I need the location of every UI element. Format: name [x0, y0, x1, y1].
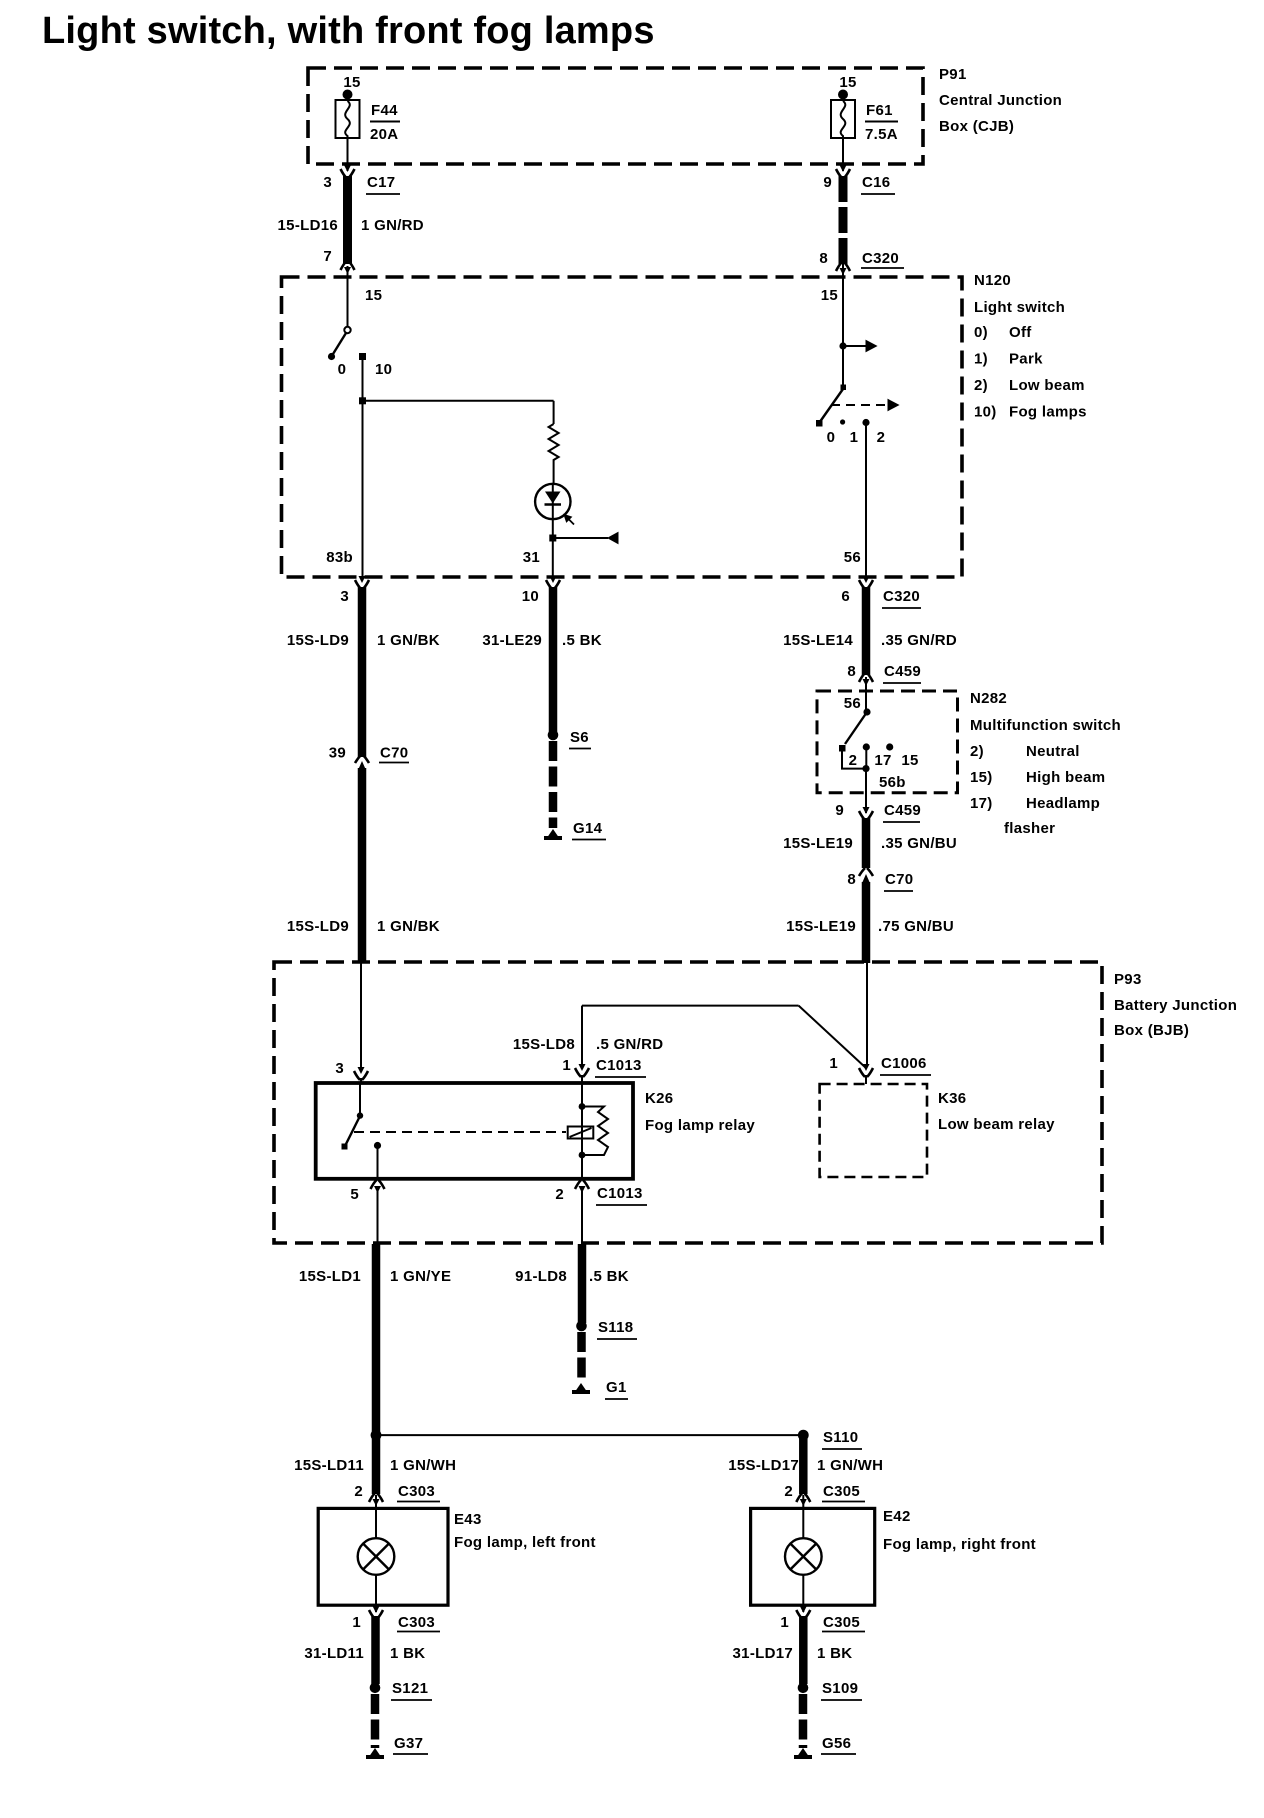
connector C1013 pin 2 below K26 [555, 1180, 647, 1205]
svg-text:15: 15 [901, 752, 918, 769]
svg-text:Battery Junction: Battery Junction [1114, 997, 1237, 1014]
N120 label block [974, 272, 1087, 421]
wire 31-LE29 .5 BK [482, 587, 601, 732]
splice S110 [798, 1429, 862, 1449]
LED wire through [552, 484, 554, 519]
stub into K26 pin 3 [360, 1078, 362, 1084]
svg-text:E42: E42 [883, 1508, 911, 1525]
svg-text:10): 10) [974, 404, 997, 421]
connector pin 10 below N120 [522, 576, 560, 605]
E42 internal wire top [802, 1495, 804, 1538]
wire contact 17 to junction [865, 747, 867, 769]
K26 Fog lamp relay box [316, 1083, 633, 1179]
svg-text:17: 17 [874, 752, 891, 769]
LED indicator lamp circle [535, 484, 570, 519]
svg-text:S6: S6 [570, 729, 589, 746]
svg-text:3: 3 [323, 174, 332, 191]
wire 15S-LE19 .35 GN/BU [783, 818, 957, 868]
contact 2 dot [862, 419, 869, 426]
svg-text:C459: C459 [884, 802, 921, 819]
svg-text:0: 0 [827, 429, 836, 446]
wire 15S-LE14 .35 GN/RD [783, 587, 957, 675]
svg-text:15S-LD1: 15S-LD1 [299, 1268, 361, 1285]
wire 15S-LD11 1 GN/WH [294, 1435, 456, 1494]
svg-text:G37: G37 [394, 1735, 423, 1752]
svg-text:P93: P93 [1114, 971, 1142, 988]
wire 15S-LD8 diagonal [799, 1006, 866, 1068]
svg-text:2: 2 [555, 1186, 564, 1203]
svg-text:9: 9 [823, 174, 832, 191]
ground G37 [366, 1735, 428, 1759]
svg-text:1 GN/BK: 1 GN/BK [377, 918, 440, 935]
connector C459 pin 9 [835, 802, 921, 822]
dashed ground wire to G14 [549, 741, 558, 828]
svg-text:7: 7 [323, 248, 332, 265]
splice S109 [798, 1680, 862, 1700]
svg-text:P91: P91 [939, 66, 967, 83]
svg-text:Fog lamp, right front: Fog lamp, right front [883, 1536, 1036, 1553]
wire 15S-LD1 1 GN/YE [299, 1244, 451, 1432]
svg-text:Neutral: Neutral [1026, 743, 1080, 760]
svg-text:S118: S118 [598, 1319, 633, 1336]
E43 label [454, 1511, 596, 1551]
LED emission arrow [564, 515, 574, 525]
contact 10 square [359, 353, 366, 360]
svg-text:15: 15 [343, 74, 360, 91]
P91 label [939, 66, 1062, 135]
connector C320 pin 8 [819, 250, 904, 275]
svg-text:0): 0) [974, 324, 988, 341]
contact 0 dot left [328, 353, 335, 360]
E42 label [883, 1508, 1036, 1553]
svg-text:15S-LD9: 15S-LD9 [287, 632, 349, 649]
resistor (illumination) [549, 424, 559, 462]
svg-text:2): 2) [970, 743, 984, 760]
svg-text:1 BK: 1 BK [390, 1645, 425, 1662]
contact labels 0 1 2 [827, 429, 886, 446]
wire pin2 to P93 border [581, 1190, 583, 1243]
wire 15S-LD8 vertical to K26 pin 1 [581, 1006, 583, 1066]
svg-text:.35 GN/RD: .35 GN/RD [881, 632, 957, 649]
K26 relay blade [345, 1116, 360, 1146]
wire 15-LD16 1 GN/RD [278, 176, 424, 264]
svg-text:Multifunction switch: Multifunction switch [970, 717, 1121, 734]
svg-text:1 GN/YE: 1 GN/YE [390, 1268, 451, 1285]
wire into N120 right [842, 252, 844, 389]
svg-text:2): 2) [974, 377, 988, 394]
svg-text:15: 15 [821, 287, 838, 304]
light switch left pole: pivot circle [344, 327, 350, 333]
wire C16 to C320 (dashed) [839, 176, 848, 264]
connector C459 pin 8 [847, 663, 921, 686]
P93 Battery Junction Box (BJB) dashed box [274, 962, 1102, 1243]
arrow to park circuit [843, 341, 877, 352]
svg-text:17): 17) [970, 795, 993, 812]
svg-text:Off: Off [1009, 324, 1032, 341]
dashed ground wire to G1 [577, 1332, 586, 1382]
wire 15S-LD9 1 GN/BK upper [287, 587, 440, 757]
K26 pin 5 internal wire [377, 1146, 379, 1179]
connector pin 7 light switch [323, 248, 354, 274]
N282 switch blade [845, 712, 867, 744]
K26 pin 3 internal wire [359, 1084, 361, 1115]
connector C16 pin 9 [823, 165, 895, 194]
svg-text:G1: G1 [606, 1379, 627, 1396]
svg-text:C1006: C1006 [881, 1055, 927, 1072]
wire resistor to LED [553, 462, 555, 484]
E42 lamp [785, 1538, 822, 1575]
svg-text:Headlamp: Headlamp [1026, 795, 1100, 812]
connector pin 5 below K26 [350, 1180, 384, 1203]
connector C70 pin 39 [329, 745, 409, 770]
P91 Central Junction Box (CJB) dashed box [308, 68, 923, 164]
wire 15S-LD17 1 GN/WH [728, 1435, 883, 1494]
K26 armature box [568, 1127, 594, 1139]
svg-text:K36: K36 [938, 1090, 966, 1107]
wire fuse F44 to C17 [347, 138, 349, 171]
svg-text:C320: C320 [862, 250, 899, 267]
svg-text:1): 1) [974, 351, 988, 368]
wire branch to resistor [363, 400, 554, 402]
svg-text:Fog lamp, left front: Fog lamp, left front [454, 1534, 596, 1551]
svg-text:0: 0 [338, 361, 347, 378]
svg-text:10: 10 [375, 361, 392, 378]
svg-text:S121: S121 [392, 1680, 428, 1697]
junction square below LED [549, 535, 556, 542]
svg-text:C303: C303 [398, 1614, 435, 1631]
svg-text:2: 2 [354, 1483, 363, 1500]
junction square on pin10 wire [359, 397, 366, 404]
svg-text:E43: E43 [454, 1511, 482, 1528]
wire into N120 [347, 266, 349, 327]
svg-text:10: 10 [522, 588, 539, 605]
svg-text:Park: Park [1009, 351, 1043, 368]
splice S121 [370, 1680, 432, 1700]
svg-text:9: 9 [835, 802, 844, 819]
svg-text:1: 1 [352, 1614, 361, 1631]
connector C303 pin 1 [352, 1606, 440, 1632]
wire pin10 down to 83b [362, 357, 364, 577]
connector C1006 pin 1 [829, 1055, 931, 1077]
svg-text:C303: C303 [398, 1483, 435, 1500]
N282 contact 17 dot [863, 743, 870, 750]
svg-text:7.5A: 7.5A [865, 126, 898, 143]
E43 Fog lamp left front box [318, 1508, 448, 1605]
stub into K36 pin1 [865, 1075, 867, 1084]
switch blade left [333, 333, 346, 354]
junction dot on right pole [839, 342, 846, 349]
connector C305 pin 1 [780, 1606, 865, 1632]
svg-text:C1013: C1013 [596, 1057, 642, 1074]
K26 coil winding [582, 1107, 608, 1156]
fuse F61 7.5A [831, 74, 898, 143]
svg-text:1: 1 [780, 1614, 789, 1631]
svg-text:15: 15 [365, 287, 382, 304]
connector C305 pin 2 [784, 1483, 865, 1506]
svg-text:.75 GN/BU: .75 GN/BU [878, 918, 954, 935]
svg-text:2: 2 [877, 429, 886, 446]
N282 contact 15 dot [886, 743, 893, 750]
K26 coil vertical wire pin1-pin2 [581, 1084, 583, 1179]
svg-text:3: 3 [340, 588, 349, 605]
horizontal stub with left arrow [553, 533, 618, 544]
wire down to resistor [553, 401, 555, 424]
K26 coil bottom dot [579, 1152, 586, 1159]
switch blade right [821, 389, 844, 421]
E43 lamp [358, 1538, 395, 1575]
svg-text:15S-LD9: 15S-LD9 [287, 918, 349, 935]
LED diode triangle [545, 492, 561, 504]
svg-text:Box (BJB): Box (BJB) [1114, 1022, 1189, 1039]
E43 internal wire bottom [375, 1575, 377, 1612]
wire 15S-LE19 .75 GN/BU [786, 882, 954, 963]
connector C70 pin 8 [847, 868, 913, 891]
wire across to S110 [376, 1434, 803, 1436]
svg-text:S109: S109 [822, 1680, 858, 1697]
svg-text:8: 8 [819, 250, 828, 267]
svg-text:15S-LE19: 15S-LE19 [783, 835, 853, 852]
svg-text:31-LE29: 31-LE29 [482, 632, 542, 649]
svg-text:15S-LE14: 15S-LE14 [783, 632, 853, 649]
svg-text:91-LD8: 91-LD8 [515, 1268, 567, 1285]
wire left into P93 to K26 pin 3 [360, 963, 362, 1072]
svg-text:.35 GN/BU: .35 GN/BU [881, 835, 957, 852]
svg-text:C17: C17 [367, 174, 395, 191]
svg-text:N120: N120 [974, 272, 1011, 289]
connector C303 pin 2 [354, 1483, 440, 1506]
wire right into P93 to C1006 [866, 963, 868, 1066]
N282 Multifunction switch dashed box [817, 691, 958, 793]
K26 blade end square [342, 1144, 348, 1150]
svg-text:6: 6 [841, 588, 850, 605]
svg-text:31-LD11: 31-LD11 [304, 1645, 364, 1662]
svg-text:31-LD17: 31-LD17 [733, 1645, 793, 1662]
svg-text:5: 5 [350, 1186, 359, 1203]
svg-text:C305: C305 [823, 1614, 860, 1631]
K36 Low beam relay dashed box [820, 1084, 927, 1177]
svg-text:S110: S110 [823, 1429, 858, 1446]
svg-text:Fog lamps: Fog lamps [1009, 404, 1087, 421]
svg-text:20A: 20A [370, 126, 398, 143]
svg-text:C16: C16 [862, 174, 890, 191]
E42 internal wire bottom [802, 1575, 804, 1612]
E43 internal wire top [375, 1495, 377, 1538]
svg-text:1 BK: 1 BK [817, 1645, 852, 1662]
svg-text:15: 15 [839, 74, 856, 91]
svg-text:1: 1 [829, 1055, 838, 1072]
svg-text:1 GN/BK: 1 GN/BK [377, 632, 440, 649]
N282 contact 2 route wire [842, 751, 866, 769]
svg-text:C70: C70 [380, 745, 408, 762]
connector C320 pin 6 below N120 [841, 576, 921, 608]
svg-text:Central Junction: Central Junction [939, 92, 1062, 109]
svg-text:39: 39 [329, 745, 346, 762]
N282 pivot dot [863, 708, 870, 715]
fuse F44 20A [336, 74, 401, 143]
svg-text:Box (CJB): Box (CJB) [939, 118, 1014, 135]
K26 pivot dot [357, 1112, 363, 1118]
svg-text:C459: C459 [884, 663, 921, 680]
wire fuse F61 to C16 [842, 138, 844, 171]
svg-text:56: 56 [844, 695, 861, 712]
svg-text:C70: C70 [885, 871, 913, 888]
dashed ground wire to G37 [371, 1694, 380, 1748]
K26 coil top dot [579, 1103, 586, 1110]
stub into K26 pin1 [581, 1075, 583, 1084]
connector pin 3 below N120 [340, 576, 369, 605]
svg-text:15S-LD17: 15S-LD17 [728, 1457, 799, 1474]
wire into N282 [865, 677, 867, 712]
wire 56b out of N282 [865, 769, 867, 813]
K26 contact dot pin5 [374, 1142, 381, 1149]
N120 Light switch dashed box [282, 277, 963, 577]
junction dot left fog feed [371, 1430, 382, 1441]
svg-text:1 GN/RD: 1 GN/RD [361, 217, 424, 234]
svg-text:F61: F61 [866, 102, 893, 119]
svg-text:1 GN/WH: 1 GN/WH [817, 1457, 883, 1474]
svg-text:15-LD16: 15-LD16 [278, 217, 338, 234]
N282 contact 2 square [839, 745, 846, 752]
svg-text:F44: F44 [371, 102, 398, 119]
connector pin 3 at K26 [335, 1060, 368, 1080]
blade travel dashed arrow [831, 400, 899, 411]
svg-text:G14: G14 [573, 820, 603, 837]
svg-text:56: 56 [844, 549, 861, 566]
svg-text:Low beam relay: Low beam relay [938, 1116, 1055, 1133]
N282 label block [970, 690, 1121, 837]
K36 label [938, 1090, 1055, 1133]
LED cathode bar [545, 503, 562, 506]
dashed ground wire to G56 [799, 1694, 808, 1748]
connector C17 pin 3 [323, 165, 400, 194]
contact 0 square right [816, 420, 823, 427]
svg-text:15): 15) [970, 769, 993, 786]
K26 actuator dashed link [354, 1131, 566, 1133]
svg-text:15S-LE19: 15S-LE19 [786, 918, 856, 935]
svg-text:2: 2 [784, 1483, 793, 1500]
svg-text:C1013: C1013 [597, 1185, 643, 1202]
ground G1 [572, 1379, 628, 1399]
wire 15S-LD8 labels [513, 1036, 664, 1053]
K26 label [645, 1090, 755, 1134]
svg-text:C320: C320 [883, 588, 920, 605]
contact 1 dot [840, 419, 845, 424]
svg-text:Low beam: Low beam [1009, 377, 1085, 394]
right pole pivot square [841, 385, 847, 391]
wire LED to pin 31 [552, 519, 554, 577]
ground G56 [794, 1735, 856, 1759]
N282 contact labels [849, 752, 919, 769]
svg-text:.5 BK: .5 BK [562, 632, 602, 649]
svg-text:Fog lamp relay: Fog lamp relay [645, 1117, 755, 1134]
splice S118 [576, 1319, 637, 1339]
svg-text:56b: 56b [879, 774, 906, 791]
N282 junction dot [862, 765, 869, 772]
svg-text:High beam: High beam [1026, 769, 1105, 786]
svg-text:.5 GN/RD: .5 GN/RD [596, 1036, 663, 1053]
wire contact 2 to pin 56 [865, 424, 867, 577]
svg-text:G56: G56 [822, 1735, 851, 1752]
E42 Fog lamp right front box [751, 1508, 875, 1605]
wire 15S-LD9 1 GN/BK lower [287, 768, 440, 963]
svg-text:31: 31 [523, 549, 540, 566]
svg-text:.5 BK: .5 BK [589, 1268, 629, 1285]
svg-text:K26: K26 [645, 1090, 673, 1107]
ground G14 [544, 820, 606, 840]
svg-text:N282: N282 [970, 690, 1007, 707]
wire 31-LD11 1 BK [304, 1616, 425, 1684]
svg-text:Light switch, with front fog l: Light switch, with front fog lamps [42, 10, 655, 52]
svg-text:1 GN/WH: 1 GN/WH [390, 1457, 456, 1474]
svg-text:1: 1 [562, 1057, 571, 1074]
svg-text:83b: 83b [326, 549, 353, 566]
P93 label block [1114, 971, 1237, 1039]
svg-text:3: 3 [335, 1060, 344, 1077]
svg-text:1: 1 [850, 429, 859, 446]
svg-text:flasher: flasher [1004, 820, 1055, 837]
wire 15S-LD8 branch horizontal [582, 1005, 799, 1007]
svg-text:15S-LD11: 15S-LD11 [294, 1457, 364, 1474]
svg-text:8: 8 [847, 663, 856, 680]
connector C1013 pin 1 [562, 1057, 646, 1077]
svg-text:Light switch: Light switch [974, 299, 1065, 316]
svg-text:C305: C305 [823, 1483, 860, 1500]
svg-text:15S-LD8: 15S-LD8 [513, 1036, 575, 1053]
svg-text:2: 2 [849, 752, 858, 769]
svg-text:8: 8 [847, 871, 856, 888]
wire 91-LD8 .5 BK [515, 1244, 629, 1323]
wire pin5 to P93 border [377, 1190, 379, 1243]
wire 31-LD17 1 BK [733, 1616, 853, 1684]
splice S6 [548, 729, 591, 749]
